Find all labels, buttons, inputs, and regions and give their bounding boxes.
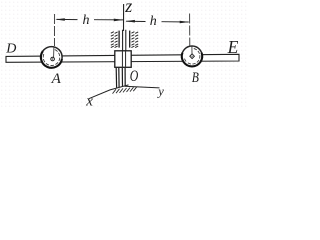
ball B	[182, 46, 202, 66]
support foot	[116, 68, 125, 88]
svg-text:E: E	[227, 37, 239, 57]
hub box	[115, 51, 131, 68]
shaft inside hub	[122, 52, 125, 67]
witness line left	[54, 14, 56, 46]
svg-text:B: B	[192, 69, 199, 86]
dimension line right h	[126, 20, 189, 23]
bearing left block hatch	[111, 32, 118, 48]
bearing right inner wall	[129, 31, 131, 48]
svg-text:x: x	[85, 93, 93, 108]
svg-text:z: z	[124, 0, 132, 16]
wire rod DE	[6, 54, 239, 62]
svg-text:h: h	[83, 13, 90, 28]
svg-text:y: y	[156, 84, 164, 98]
svg-text:O: O	[130, 68, 139, 85]
ground hatching	[113, 87, 137, 94]
arrowhead right outer	[180, 21, 190, 24]
svg-text:A: A	[51, 71, 62, 87]
shaft walls	[123, 30, 126, 51]
ball A	[41, 47, 62, 68]
axis y line	[125, 86, 160, 88]
arrowhead left outer	[55, 18, 65, 21]
bearing left inner wall	[118, 31, 120, 48]
svg-text:h: h	[150, 14, 157, 29]
arrowhead right inner	[125, 20, 135, 23]
axis z line	[123, 4, 125, 31]
svg-text:D: D	[5, 41, 16, 56]
witness line right	[189, 14, 191, 47]
dimension line left h	[57, 18, 124, 21]
bearing right block hatch	[131, 32, 138, 48]
axis x line	[89, 85, 129, 99]
arrowhead left inner	[114, 19, 124, 22]
